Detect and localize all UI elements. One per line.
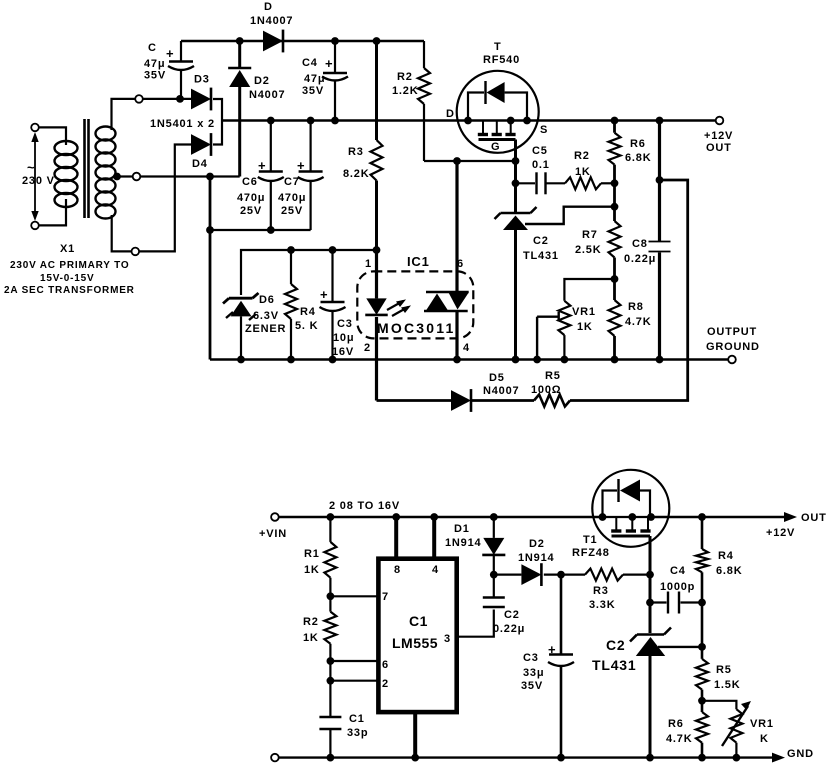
svg-text:S: S [540,124,548,136]
svg-text:R3: R3 [593,585,609,597]
svg-text:T1: T1 [583,534,597,546]
resistor R3 top lead [375,41,378,140]
capacitor C2b label [493,609,525,635]
node gate junction [512,157,520,165]
svg-text:D1: D1 [454,523,470,535]
capacitor C6 top lead [270,121,272,172]
wire secondary top lead [112,99,192,130]
wire primary bottom [39,199,66,225]
diode D label [250,1,293,27]
svg-text:1N4007: 1N4007 [250,15,293,27]
diode D1 [482,538,505,555]
resistor R2a bottom lead [423,104,425,161]
resistor R4b lead [701,517,704,549]
wire R7 bottom [613,258,616,301]
label C1 LM555 [392,613,438,651]
capacitor C 47u [168,62,194,71]
diode D2 cathode lead [238,41,241,67]
svg-text:C8: C8 [632,238,648,250]
wire center tap [117,175,240,177]
wire pin3 [457,610,494,637]
node VR1b gnd [733,754,741,762]
svg-text:GND: GND [787,748,814,760]
node R8 gnd [611,356,619,364]
label pin 6 [457,258,464,270]
label +12V OUT [704,130,733,154]
node T1 D [599,513,607,521]
label IC1 [407,254,430,269]
svg-text:+: + [297,158,305,173]
node C8 feedback [656,176,664,184]
resistor R3b label [589,585,615,611]
svg-text:4: 4 [463,342,470,354]
resistor R6b [696,712,708,743]
IC1 LED [365,298,387,315]
svg-text:35V: 35V [144,70,166,82]
wire C5 left [516,182,536,184]
node D1 D2 C2 [490,571,498,579]
resistor R6b label [666,718,692,745]
X1 primary voltage arrow [31,132,38,221]
diode D2 [228,68,251,177]
label +VIN [259,528,287,540]
svg-text:1K: 1K [577,321,593,333]
wire pin8 [394,517,398,559]
svg-text:C4: C4 [302,57,318,69]
svg-text:D4: D4 [192,158,208,170]
node R5b top [698,643,706,651]
svg-text:LM555: LM555 [392,635,438,651]
svg-text:R3: R3 [348,146,364,158]
label pin8 [394,564,401,576]
node C8 top [656,117,664,125]
node pin4 gnd [453,356,461,364]
diode D1 label [445,523,481,549]
node VR1a gnd [561,356,569,364]
resistor R6 lead [613,121,616,133]
wire gate line [424,160,516,162]
capacitor C 47u top lead [180,41,182,62]
svg-text:R6: R6 [668,718,684,730]
potentiometer VR1a label [572,306,596,333]
capacitor C4b [668,592,679,614]
svg-text:D6: D6 [259,294,275,306]
svg-text:1000p: 1000p [660,581,695,593]
capacitor C4 [322,73,348,81]
resistor R5b label [714,664,740,691]
optocoupler IC1 dashed box [357,271,473,338]
resistor R3b [585,569,623,581]
capacitor C8 [649,242,671,252]
capacitor C3b label [521,642,556,692]
resistor R2a [418,68,430,104]
svg-text:35V: 35V [302,85,324,97]
diode D3 [191,88,211,111]
node secondary center tap [113,173,121,181]
svg-text:2 08 TO 16V: 2 08 TO 16V [329,500,400,512]
svg-text:8.2K: 8.2K [343,168,369,180]
resistor R3 [371,140,383,181]
resistor R4 top lead [290,250,292,284]
wire primary top [39,127,66,145]
resistor R5 label [531,370,561,396]
node VR1a wiper gnd [533,356,541,364]
node R3 zener rail [373,246,381,254]
terminal center tap [133,173,141,181]
resistor R7 [609,221,621,258]
zener D6 label [245,294,286,335]
capacitor C3a [320,302,346,311]
svg-text:D5: D5 [489,372,505,384]
svg-text:+: + [258,158,266,173]
capacitor C3b [548,655,574,667]
svg-text:R2: R2 [574,150,590,162]
node C6 top [267,117,275,125]
capacitor C8 top lead [658,121,661,242]
svg-text:VR1: VR1 [572,306,596,318]
capacitor C4 top lead [334,41,336,73]
svg-text:3: 3 [444,633,451,645]
svg-text:C2: C2 [504,609,520,621]
mosfet T gate lead [514,140,517,162]
wire pin4 [432,517,436,559]
resistor R2b label [574,150,591,178]
svg-text:470μ: 470μ [278,192,306,204]
svg-text:OUT: OUT [801,512,826,524]
svg-text:1.2K: 1.2K [392,85,418,97]
mosfet T1 labels [572,534,610,559]
svg-text:6.3V: 6.3V [253,310,279,322]
diode D2 label [249,75,285,101]
svg-text:R8: R8 [628,301,644,313]
svg-text:~: ~ [27,160,35,175]
capacitor C6 bottom lead [270,182,272,230]
diode D4 [191,133,211,156]
svg-text:1K: 1K [303,632,319,644]
node mosfet D [464,117,472,125]
wire R1 bottom [329,578,331,612]
capacitor C5 label [532,145,550,171]
resistor R2b [565,177,601,189]
svg-text:D: D [446,108,455,120]
IC1 triac bottom lead [455,311,458,360]
node C3b top [557,571,565,579]
svg-text:47μ: 47μ [304,73,325,85]
node D2 top [236,37,244,45]
mosfet T1 circle [592,470,669,547]
capacitor C3b lead [560,575,563,654]
IC1 LED lead bottom [375,317,378,401]
wire gnd rail corner [210,358,732,361]
TL431 C2c [630,628,671,657]
node ref junction [611,203,619,211]
svg-text:R4: R4 [718,550,734,562]
diode D [263,30,283,53]
svg-text:R5: R5 [545,370,561,382]
svg-text:GROUND: GROUND [706,341,760,353]
resistor R1 lead [329,517,331,542]
svg-text:2: 2 [364,342,371,354]
node R4b top [698,513,706,521]
resistor R6 label [625,138,651,164]
node T1 substrate [628,513,636,521]
svg-text:1: 1 [365,258,372,270]
TL431 C2c label [592,637,636,673]
label pin6b [382,659,389,671]
resistor R6b bottom lead [701,743,704,758]
svg-text:VR1: VR1 [750,718,774,730]
mosfet T channel [478,121,516,140]
terminal +VIN [271,513,279,521]
terminal secondary top [135,95,143,103]
resistor R8 bottom lead [613,336,616,360]
wire D3 cathode to join [213,99,222,145]
svg-text:4: 4 [432,564,439,576]
capacitor C8 label [624,238,656,265]
wire to D2 [494,573,522,575]
svg-text:C5: C5 [532,145,548,157]
wire center-tap down [209,177,212,360]
TL431 C2a anode lead [514,230,517,360]
wire fb left [377,399,452,402]
svg-text:0.22μ: 0.22μ [493,623,525,635]
node C4b left [646,599,654,607]
IC1 triac [424,292,469,311]
wire R4b bottom [701,572,704,659]
wire secondary bottom lead [112,145,191,252]
wire pin7 [330,595,378,597]
node mosfet substrate [507,117,515,125]
svg-text:0.1: 0.1 [532,159,550,171]
resistor R8 [609,300,621,336]
capacitor C label [144,42,174,82]
potentiometer VR1a wiper [537,312,559,360]
label pin 2 [364,342,371,354]
IC1 LED light arrows [387,299,411,316]
svg-text:RFZ48: RFZ48 [572,547,610,559]
svg-text:R5: R5 [716,664,732,676]
TL431 C2c anode lead [649,656,652,758]
svg-text:X1: X1 [60,243,75,255]
wire top rail [181,40,424,42]
zener D6 [223,293,259,360]
diode D3 label [194,74,210,86]
svg-text:N4007: N4007 [249,89,285,101]
capacitor C3a top lead [331,250,333,302]
X1 core [85,119,89,218]
wire pin2b [330,680,378,682]
mosfet T circle [457,71,539,153]
resistor R3 label [343,146,369,180]
svg-text:8: 8 [394,564,401,576]
svg-text:4.7K: 4.7K [625,316,651,328]
node C8 gnd [656,356,664,364]
resistor R2a top lead [423,41,425,68]
svg-text:C: C [148,42,157,54]
capacitor C2b [483,598,505,608]
resistor R4 [285,284,297,319]
node C7 top [307,117,315,125]
node R4 gnd [287,356,295,364]
capacitor C4b label [660,565,695,593]
capacitor C1b [319,717,341,729]
wire pin6b [330,660,378,662]
diode D1 bottom lead [493,556,495,575]
terminal output ground [728,356,736,364]
svg-text:C1: C1 [349,713,365,725]
svg-text:+12V: +12V [704,130,733,142]
wire TL431a ref [525,207,615,224]
label pin2b [382,678,389,690]
node R6b gnd [698,754,706,762]
svg-text:C3: C3 [337,318,353,330]
node C6 bottom [267,226,275,234]
svg-text:R1: R1 [304,548,320,560]
label GND arrow [772,748,814,763]
resistor R4b label [716,550,742,577]
svg-text:D: D [264,1,273,13]
wire feedback right [570,180,688,401]
capacitor C3b bottom lead [560,667,563,758]
capacitor C2b lead [493,575,495,597]
svg-text:2A SEC TRANSFORMER: 2A SEC TRANSFORMER [4,285,135,296]
mosfet T1 body diode [603,479,651,517]
svg-text:ZENER: ZENER [245,323,286,335]
potentiometer VR1b label [750,718,774,745]
IC1 triac top lead [455,161,458,292]
label pin7 [382,591,389,603]
svg-text:7: 7 [382,591,389,603]
wire VR1b top [702,701,736,709]
resistor R3 bottom lead [375,181,378,251]
svg-text:TL431: TL431 [523,250,559,262]
node R7 R8 junction [611,275,619,283]
node TL431a gnd [512,356,520,364]
svg-text:IC1: IC1 [407,254,430,269]
mosfet T1 gate lead [649,536,652,575]
svg-text:1N914: 1N914 [445,537,481,549]
resistor R2a label [392,71,418,97]
node C1b gnd [327,754,335,762]
node pin4 rail [430,513,438,521]
wire TL431c ref [658,646,702,648]
node R1 top [327,513,335,521]
capacitor C7 [298,172,324,182]
node pin6b [327,657,335,665]
capacitor C7 label [278,158,306,217]
resistor R5 [534,395,570,407]
diode D1 lead [493,517,495,538]
svg-text:+: + [166,46,174,61]
TL431 C2a label [523,235,559,262]
wire bottom gnd rail [279,756,772,758]
wire VR1a top [564,279,614,301]
node pin1 gnd [411,754,419,762]
diode D5 label [483,372,519,397]
node pin6 gate [453,157,461,165]
svg-text:+12V: +12V [766,527,795,539]
IC1 LED lead top [375,250,378,298]
wire sub rail [210,229,311,231]
svg-text:MOC3011: MOC3011 [377,320,455,336]
wire main rail [222,119,720,121]
wire OUT rail [651,516,784,518]
svg-text:D2: D2 [254,75,270,87]
svg-text:R6: R6 [630,138,646,150]
mosfet T body diode [468,81,527,121]
svg-text:33p: 33p [347,727,368,739]
potentiometer VR1b [722,701,751,746]
label pin 4 [463,342,470,354]
svg-text:OUT: OUT [706,142,732,154]
svg-text:K: K [760,733,769,745]
capacitor C8 bottom lead [658,253,661,360]
wire bottom top rail [279,516,603,518]
resistor R1 [324,542,336,578]
potentiometer VR1b bottom lead [735,743,737,758]
terminal secondary bottom [132,248,140,256]
svg-text:33μ: 33μ [523,667,544,679]
node C3a top [329,246,337,254]
wire R2c bottom [329,644,331,716]
svg-text:16V: 16V [332,346,354,358]
capacitor C3a bottom lead [331,312,333,360]
svg-text:C6: C6 [242,176,258,188]
diode D5 [451,389,471,412]
wire gate down [514,161,517,213]
capacitor C3a label [320,287,354,358]
resistor R7 label [575,229,601,256]
wire pin1 [413,712,417,758]
terminal +12V out [716,117,724,125]
capacitor C4 bottom lead [334,82,336,121]
resistor R6 [609,133,621,165]
svg-text:R4: R4 [300,306,316,318]
svg-text:5. K: 5. K [295,320,318,332]
node pin8 rail [392,513,400,521]
svg-text:100Ω: 100Ω [531,384,561,396]
svg-text:2: 2 [382,678,389,690]
resistor R8 label [625,301,651,328]
svg-text:15V-0-15V: 15V-0-15V [40,273,94,284]
svg-text:2.5K: 2.5K [575,244,601,256]
svg-text:TL431: TL431 [592,657,636,673]
resistor R4 label [295,306,318,332]
diode D2b [521,563,541,586]
svg-text:6.8K: 6.8K [716,565,742,577]
node C4 top [331,37,339,45]
capacitor C1b label [347,713,368,739]
svg-text:10μ: 10μ [333,332,354,344]
svg-text:C4: C4 [670,565,686,577]
svg-text:4.7K: 4.7K [666,733,692,745]
capacitor C1b bottom lead [329,730,331,758]
svg-text:+: + [320,287,328,302]
wire R3b right [623,573,650,575]
svg-text:+: + [548,642,556,657]
svg-text:C2: C2 [533,235,549,247]
wire gate to TL431 [649,575,652,633]
svg-text:35V: 35V [521,680,543,692]
potentiometer VR1a bottom lead [563,335,565,359]
resistor R1 label [304,548,320,576]
svg-text:+: + [325,56,333,71]
svg-text:25V: 25V [240,205,262,217]
svg-text:N4007: N4007 [483,385,519,397]
capacitor C7 top lead [310,121,312,172]
label supply range [329,500,400,512]
X1 secondary winding [96,127,116,219]
